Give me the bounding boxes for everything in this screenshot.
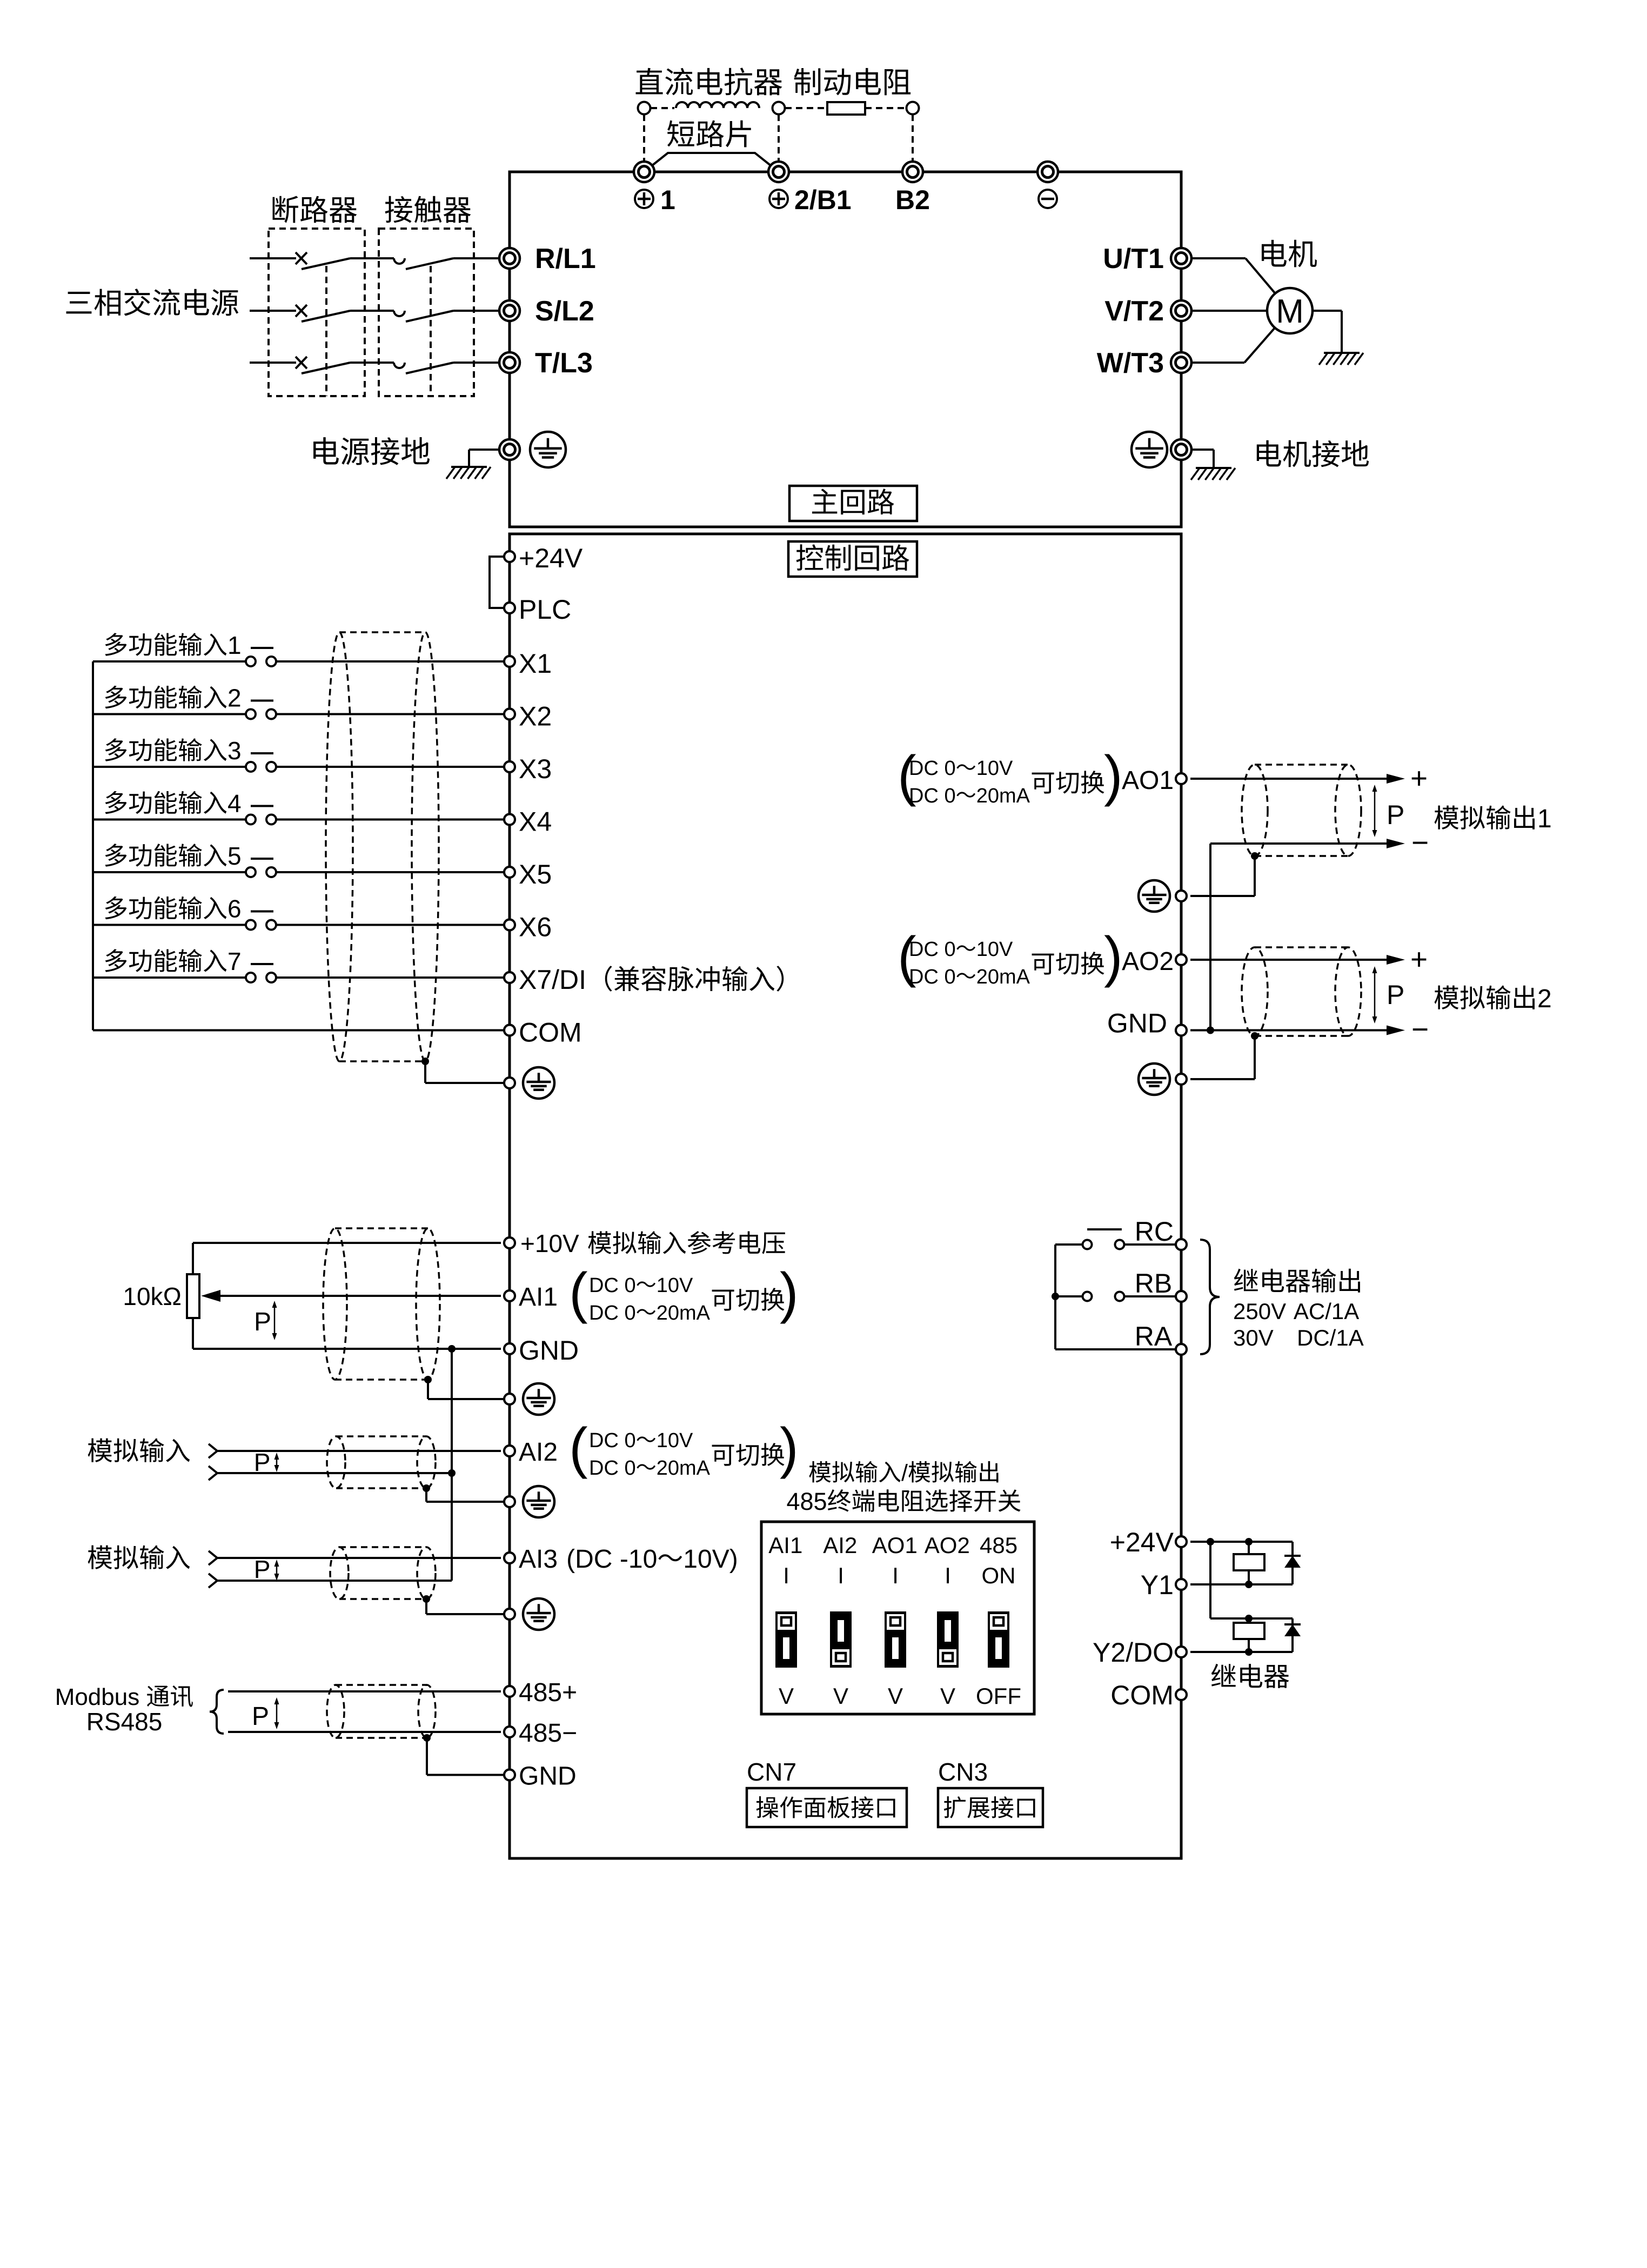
svg-text:250V: 250V — [1233, 1299, 1286, 1324]
svg-text:(: ( — [569, 1417, 588, 1480]
svg-text:X7/DI: X7/DI — [519, 965, 586, 995]
svg-text:I: I — [838, 1563, 844, 1588]
svg-text:AI1: AI1 — [768, 1533, 802, 1558]
svg-text:6: 6 — [227, 895, 242, 923]
svg-text:AC/1A: AC/1A — [1294, 1299, 1359, 1324]
svg-text:485−: 485− — [519, 1719, 577, 1748]
svg-text:P: P — [1387, 980, 1404, 1010]
svg-text:+: + — [1410, 942, 1428, 976]
svg-text:AO2: AO2 — [1122, 947, 1174, 976]
svg-text:0: 0 — [945, 966, 956, 988]
svg-text:AI2: AI2 — [823, 1533, 857, 1558]
svg-text:4: 4 — [227, 790, 242, 818]
svg-text:P: P — [254, 1448, 271, 1476]
svg-text:0: 0 — [625, 1429, 636, 1452]
svg-text:I: I — [783, 1563, 789, 1588]
svg-text:RA: RA — [1135, 1321, 1173, 1352]
svg-text:3: 3 — [227, 737, 242, 765]
svg-text:-10: -10 — [620, 1545, 657, 1574]
svg-text:1: 1 — [660, 185, 675, 215]
svg-text:DC: DC — [589, 1429, 619, 1452]
svg-text:P: P — [1387, 800, 1404, 830]
svg-text:RC: RC — [1135, 1216, 1174, 1247]
svg-text:+24V: +24V — [519, 543, 583, 573]
svg-text:X3: X3 — [519, 754, 552, 784]
svg-text:P: P — [254, 1555, 271, 1583]
svg-text:GND: GND — [519, 1335, 579, 1366]
svg-text:COM: COM — [519, 1018, 582, 1048]
svg-text:20mA: 20mA — [657, 1302, 711, 1324]
svg-text:2: 2 — [1537, 985, 1552, 1013]
svg-text:10V: 10V — [976, 938, 1013, 961]
svg-text:V: V — [888, 1683, 903, 1709]
svg-text:AI3: AI3 — [519, 1545, 558, 1574]
svg-text:S/L2: S/L2 — [535, 296, 594, 327]
svg-text:V: V — [940, 1683, 955, 1709]
svg-text:DC: DC — [909, 785, 939, 807]
svg-text:5: 5 — [227, 842, 242, 870]
svg-text:T/L3: T/L3 — [535, 347, 593, 379]
svg-text:): ) — [1104, 926, 1123, 988]
svg-text:V/T2: V/T2 — [1104, 296, 1164, 327]
svg-text:0: 0 — [625, 1302, 636, 1324]
svg-text:(: ( — [569, 1262, 588, 1324]
svg-text:U/T1: U/T1 — [1103, 243, 1164, 275]
svg-text:AO2: AO2 — [925, 1533, 970, 1558]
svg-text:20mA: 20mA — [976, 785, 1030, 807]
svg-text:−: − — [1411, 1013, 1429, 1046]
svg-text:+24V: +24V — [1110, 1527, 1174, 1557]
svg-text:485: 485 — [980, 1533, 1017, 1558]
svg-text:30V: 30V — [1233, 1325, 1274, 1350]
svg-text:DC: DC — [909, 757, 939, 780]
svg-text:20mA: 20mA — [657, 1457, 711, 1480]
svg-text:X6: X6 — [519, 912, 552, 942]
svg-text:10V): 10V) — [683, 1545, 738, 1574]
svg-text:0: 0 — [945, 757, 956, 780]
svg-text:OFF: OFF — [976, 1683, 1021, 1709]
svg-text:10V: 10V — [657, 1274, 693, 1297]
svg-text:Y2/DO: Y2/DO — [1093, 1637, 1174, 1668]
svg-text:B2: B2 — [895, 185, 930, 215]
svg-text:DC: DC — [589, 1302, 619, 1324]
svg-text:AO1: AO1 — [872, 1533, 918, 1558]
svg-text:0: 0 — [625, 1457, 636, 1480]
svg-text:−: − — [1411, 826, 1429, 859]
svg-text:GND: GND — [1107, 1008, 1167, 1039]
svg-text:1: 1 — [1537, 805, 1552, 833]
svg-text:10V: 10V — [657, 1429, 693, 1452]
svg-text:10V: 10V — [976, 757, 1013, 780]
svg-text:DC: DC — [909, 966, 939, 988]
svg-text:AI2: AI2 — [519, 1438, 558, 1467]
svg-text:GND: GND — [519, 1762, 577, 1791]
svg-text:ON: ON — [982, 1563, 1016, 1588]
svg-text:DC/1A: DC/1A — [1297, 1325, 1364, 1350]
svg-text:DC: DC — [589, 1274, 619, 1297]
svg-text:X2: X2 — [519, 701, 552, 732]
svg-text:485+: 485+ — [519, 1678, 577, 1707]
svg-text:AO1: AO1 — [1122, 766, 1174, 795]
svg-text:2: 2 — [227, 684, 242, 712]
svg-text:CN7: CN7 — [747, 1758, 796, 1786]
svg-text:DC: DC — [589, 1457, 619, 1480]
svg-text:R/L1: R/L1 — [535, 243, 596, 275]
svg-text:PLC: PLC — [519, 594, 571, 625]
svg-text:+10V: +10V — [520, 1229, 579, 1257]
svg-text:RB: RB — [1135, 1268, 1172, 1299]
svg-text:0: 0 — [625, 1274, 636, 1297]
svg-text:X1: X1 — [519, 648, 552, 679]
svg-text:P: P — [254, 1308, 271, 1336]
svg-text:RS485: RS485 — [86, 1708, 163, 1736]
svg-text:X4: X4 — [519, 807, 552, 837]
svg-text:+: + — [1410, 761, 1428, 795]
svg-text:20mA: 20mA — [976, 966, 1030, 988]
svg-text:0: 0 — [945, 938, 956, 961]
svg-text:10kΩ: 10kΩ — [123, 1282, 182, 1310]
svg-text:AI1: AI1 — [519, 1283, 558, 1312]
svg-text:P: P — [252, 1702, 269, 1731]
svg-text:/: / — [901, 1460, 908, 1486]
svg-text:X5: X5 — [519, 859, 552, 889]
svg-text:I: I — [892, 1563, 899, 1588]
svg-text:W/T3: W/T3 — [1097, 347, 1164, 379]
svg-text:DC: DC — [909, 938, 939, 961]
svg-text:V: V — [833, 1683, 848, 1709]
svg-text:): ) — [780, 1417, 799, 1480]
svg-text:M: M — [1276, 293, 1304, 330]
svg-text:CN3: CN3 — [938, 1758, 988, 1786]
svg-text:485: 485 — [787, 1488, 827, 1515]
svg-text:Modbus: Modbus — [55, 1684, 140, 1710]
svg-text:1: 1 — [227, 631, 242, 659]
svg-text:2/B1: 2/B1 — [794, 185, 852, 215]
svg-text:COM: COM — [1110, 1680, 1174, 1710]
svg-text:V: V — [779, 1683, 794, 1709]
svg-text:I: I — [945, 1563, 951, 1588]
svg-text:): ) — [1104, 745, 1123, 807]
svg-text:Y1: Y1 — [1141, 1570, 1174, 1600]
svg-text:(DC: (DC — [566, 1545, 612, 1574]
svg-text:): ) — [780, 1262, 799, 1324]
svg-text:0: 0 — [945, 785, 956, 807]
svg-text:7: 7 — [227, 947, 242, 975]
